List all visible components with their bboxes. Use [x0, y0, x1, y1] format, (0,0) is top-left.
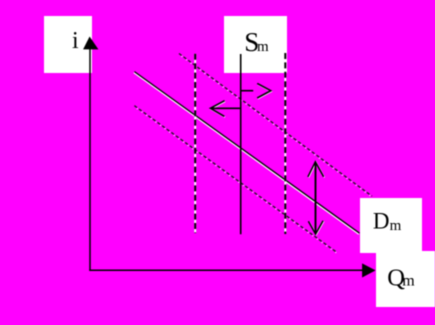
svg-text:m: m: [257, 39, 269, 55]
svg-text:i: i: [72, 28, 79, 54]
svg-text:m: m: [402, 273, 415, 290]
svg-text:D: D: [373, 209, 390, 234]
svg-text:m: m: [390, 218, 402, 234]
